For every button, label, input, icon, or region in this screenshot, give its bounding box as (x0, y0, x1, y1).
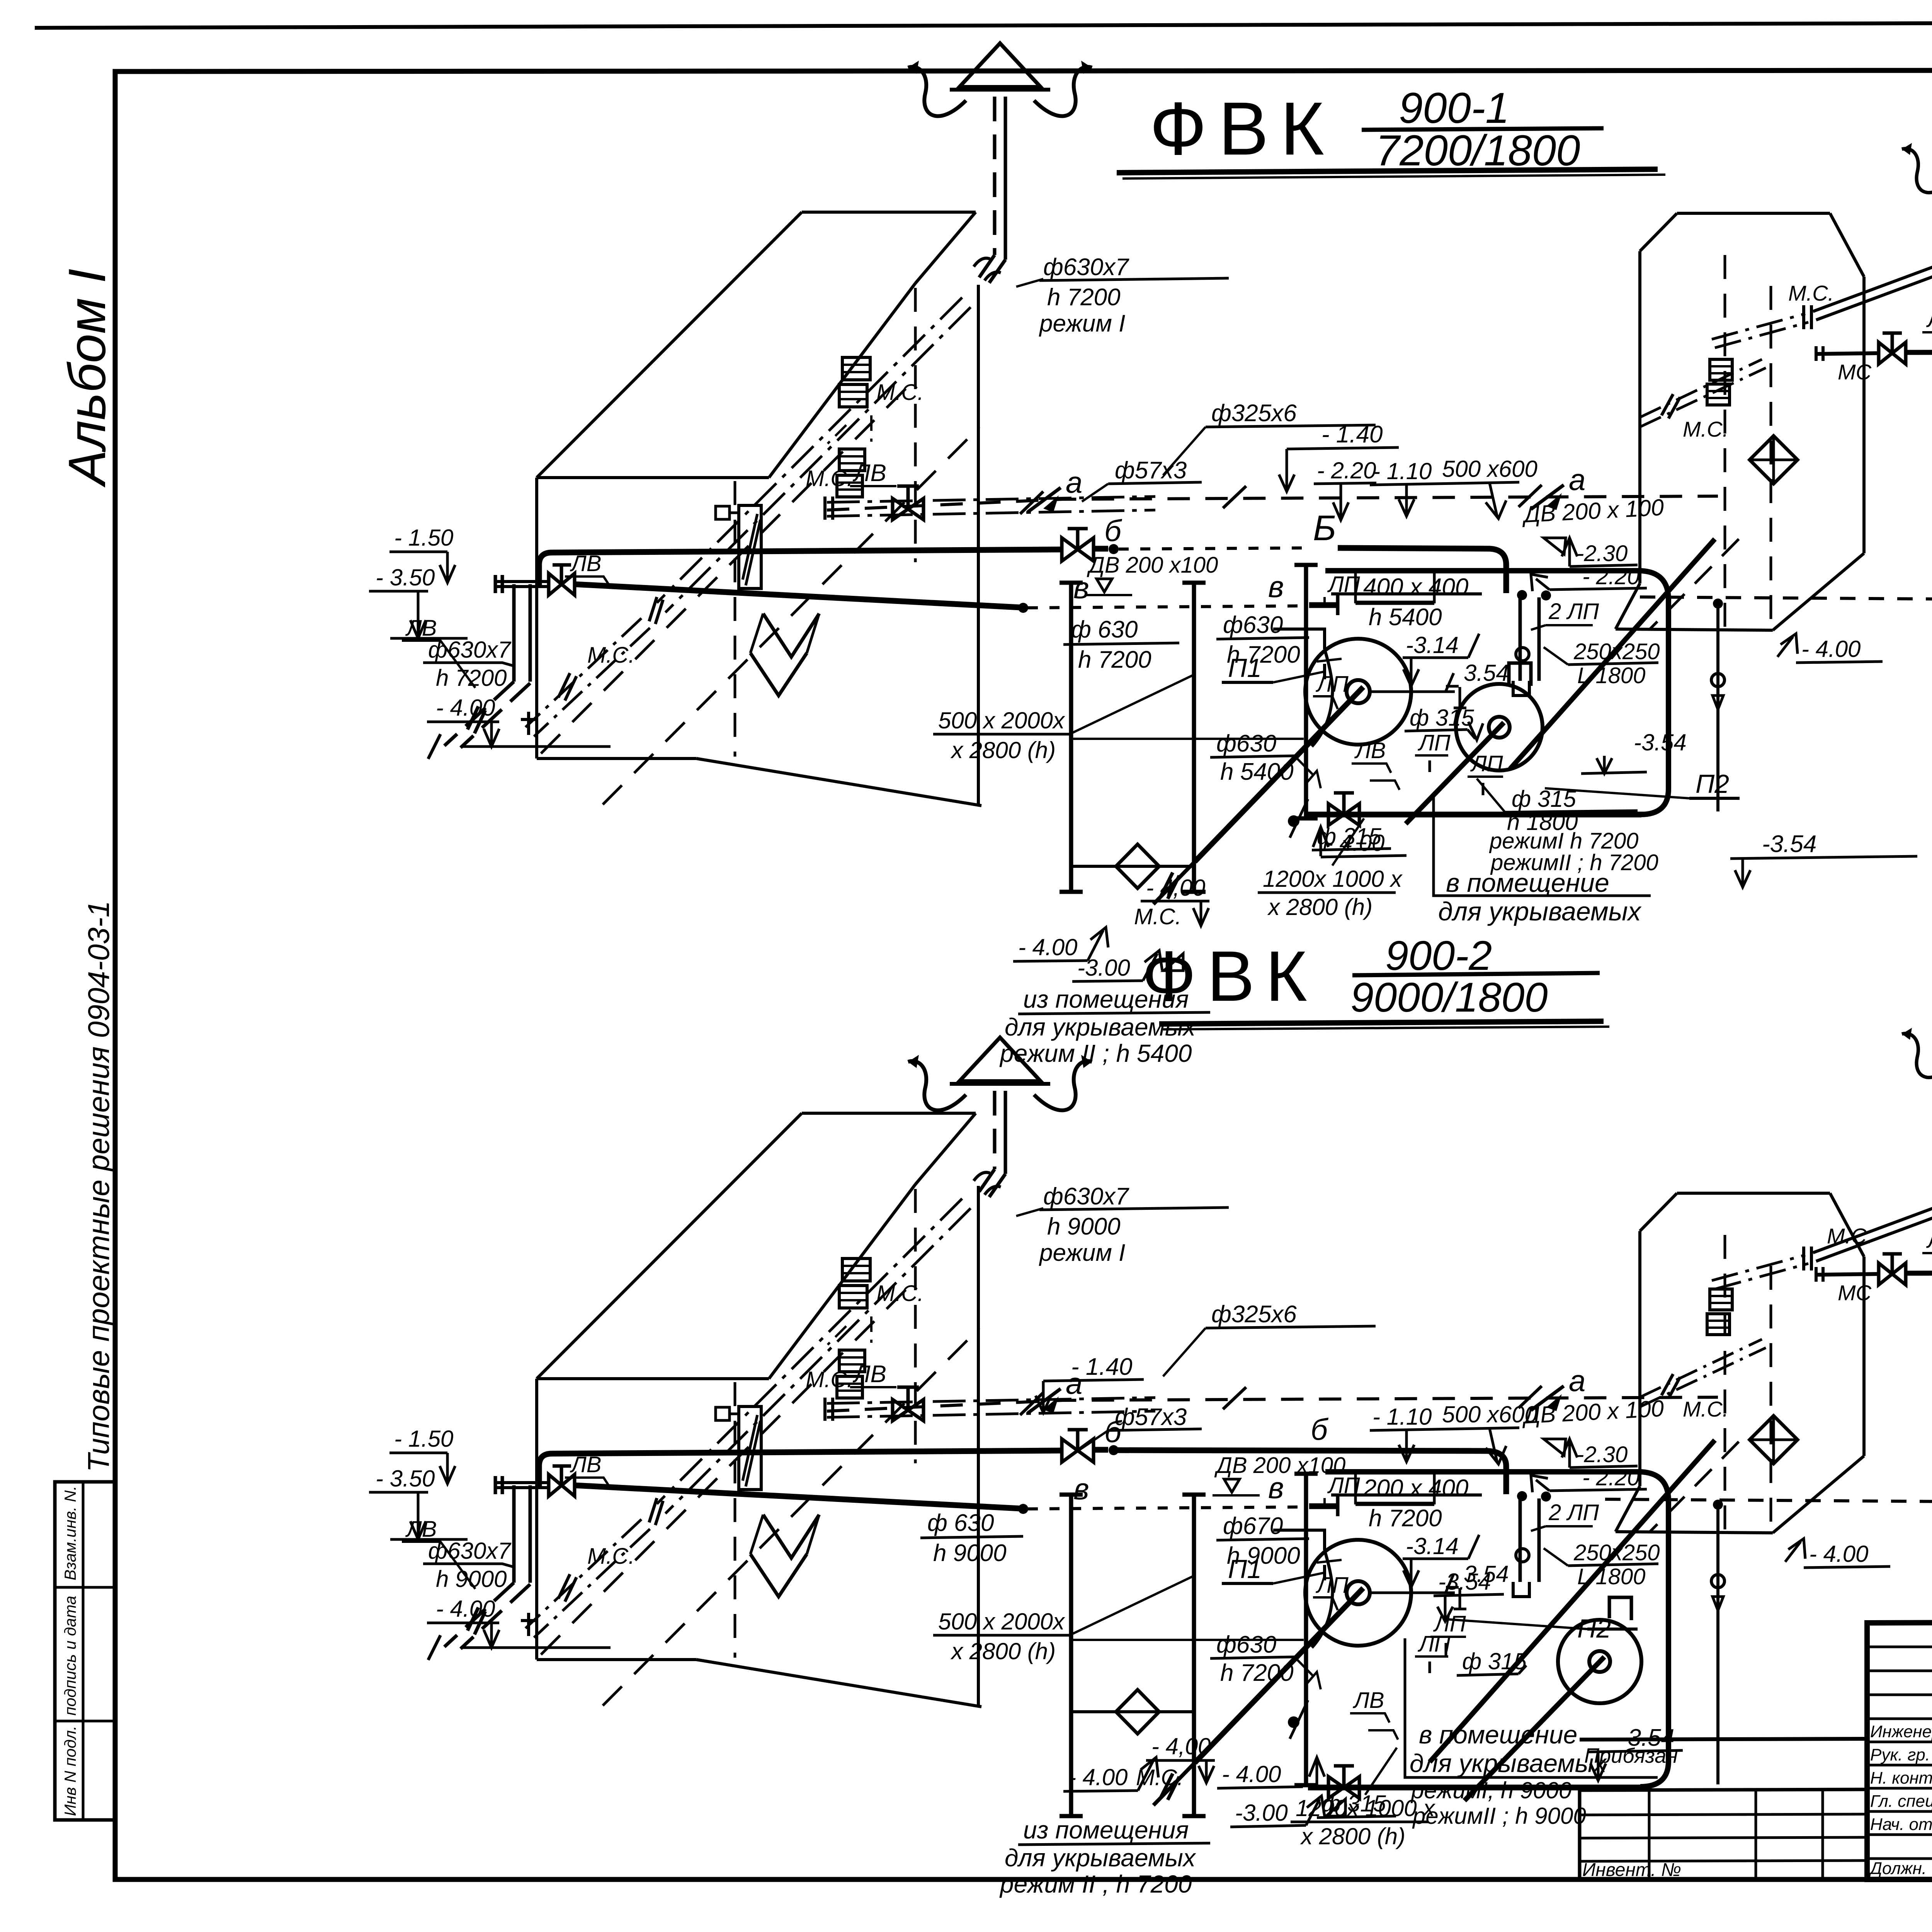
label ЛП 400x400 h5400 (1325, 1472, 1468, 1532)
svg-text:Гл. спец.: Гл. спец. (1870, 1792, 1932, 1811)
label 250x250 L1800 (1544, 639, 1660, 688)
svg-text:h 7200: h 7200 (1047, 284, 1121, 311)
svg-text:x 2800 (h): x 2800 (h) (950, 1638, 1056, 1664)
label 3.54 (П1) (1446, 660, 1509, 708)
svg-text:400 x 400: 400 x 400 (1363, 574, 1468, 600)
heater grid 2 (837, 449, 865, 497)
dash-dot duct into box (1640, 1339, 1766, 1407)
label ЛП 400x400 h5400 (1325, 571, 1468, 631)
svg-text:в: в (1073, 571, 1089, 605)
label ЛП (П1 inlet) (1313, 672, 1349, 709)
title ФВК 900-1/7200/1800 (1117, 84, 1665, 179)
svg-text:-2.30: -2.30 (1577, 541, 1628, 566)
left pipe cluster: flanged pipe + valve (495, 1466, 575, 1496)
dashed line to г (1605, 1499, 1932, 1502)
heater grid 2 (837, 1350, 865, 1398)
svg-text:ЛВ: ЛВ (852, 460, 886, 486)
М.С. + -3.00 (П1 shaft end, bottom) (1136, 1765, 1345, 1827)
left shelter box outline (537, 1113, 981, 1707)
svg-text:П1: П1 (1228, 1554, 1262, 1584)
heater grid 1 (839, 1259, 870, 1308)
в pipe (575, 584, 1338, 615)
label ф315 (П2 inlet) (1405, 705, 1483, 740)
svg-text:1200x 1000 x: 1200x 1000 x (1263, 866, 1403, 892)
right vent cap (1902, 1012, 1932, 1078)
svg-text:h 7200: h 7200 (436, 665, 507, 691)
svg-text:а: а (1066, 465, 1082, 499)
discharge diagonal duct П2 (1430, 1440, 1715, 1762)
svg-text:ЛВ: ЛВ (852, 1361, 886, 1388)
svg-text:ф630x7: ф630x7 (1043, 1183, 1129, 1210)
svg-text:Альбом I: Альбом I (58, 269, 116, 488)
vent cap of left box stack (bottom) (908, 1037, 1092, 1110)
svg-text:- 4.00: - 4.00 (436, 695, 495, 721)
svg-text:М.С.: М.С. (1134, 904, 1181, 929)
label ЛП/1 (П1 hub) (1415, 1631, 1451, 1673)
label ф630 h5400 + diagonal duct (1210, 730, 1321, 838)
label ЛВ (cluster lower) (402, 616, 475, 688)
svg-text:ф630x7: ф630x7 (1043, 254, 1129, 281)
svg-text:ф325x6: ф325x6 (1211, 400, 1297, 427)
dash-dot duct М.С. lower-left (521, 1519, 650, 1638)
svg-text:Инв N подл.: Инв N подл. (61, 1726, 79, 1816)
vent cap of left box stack (908, 43, 1092, 116)
label -3.54 (outlet) (1730, 831, 1917, 887)
svg-text:Инженер: Инженер (1870, 1722, 1932, 1741)
fan П2 (1406, 663, 1543, 824)
break marks on axis (1020, 1393, 1043, 1415)
label ДВ 200x100 (center) (1085, 553, 1218, 595)
label ф325x6 (left) (1163, 1301, 1376, 1376)
svg-text:- 1.50: - 1.50 (394, 1426, 453, 1452)
svg-text:h 7200: h 7200 (1369, 1505, 1442, 1532)
svg-text:ЛВ: ЛВ (570, 551, 601, 576)
svg-text:режим I: режим I (1039, 310, 1125, 337)
label -2.20 (right) (1531, 1465, 1647, 1492)
svg-text:- 4.00: - 4.00 (1801, 636, 1861, 662)
V flow symbol (750, 1515, 819, 1597)
label ЛВ (cluster lower) (402, 1517, 475, 1589)
valve on ф315 pipe (1308, 1766, 1359, 1798)
wall slot device (716, 1406, 761, 1490)
svg-text:- 4.00: - 4.00 (1068, 1764, 1128, 1790)
svg-text:ф325x6: ф325x6 (1211, 1301, 1297, 1328)
svg-text:h 9000: h 9000 (933, 1540, 1007, 1566)
valve on ф315 pipe (1308, 793, 1359, 825)
label -1.40 (axis a left) (1279, 421, 1399, 492)
svg-text:h 5400: h 5400 (1220, 759, 1294, 785)
svg-text:режим II ; h 7200: режим II ; h 7200 (999, 1870, 1192, 1898)
label ф630 h9000 (under в, bottom) (920, 1510, 1023, 1566)
valve on б pipe (1062, 1430, 1094, 1462)
svg-text:- 2.20: - 2.20 (1582, 564, 1639, 589)
svg-text:- 4.00: - 4.00 (436, 1596, 495, 1622)
level -4.00 (left) (1063, 1757, 1158, 1791)
label 1200x1000x x2800(h) (1258, 818, 1403, 920)
label ф630 h7200 (chamber) (1216, 612, 1342, 668)
svg-text:П1: П1 (1228, 653, 1262, 683)
svg-text:x 2800 (h): x 2800 (h) (1267, 894, 1372, 920)
svg-text:б: б (1104, 514, 1122, 548)
label 2 ЛП (1531, 1500, 1599, 1531)
svg-text:-3.00: -3.00 (1077, 955, 1130, 981)
svg-text:- 4.00: - 4.00 (1222, 1761, 1281, 1787)
label ф57x3 (1082, 457, 1202, 502)
title ФВК 900-2/9000/1800 (1142, 932, 1609, 1029)
svg-text:Нач. отд.: Нач. отд. (1870, 1815, 1932, 1834)
svg-text:- 4.00: - 4.00 (1325, 830, 1384, 856)
dash-dot duct into box (1640, 359, 1766, 427)
svg-text:Должн.: Должн. (1868, 1859, 1927, 1878)
svg-text:Типовые проектные решения 0904: Типовые проектные решения 0904-03-1 (82, 901, 116, 1472)
svg-text:- 1.40: - 1.40 (1321, 421, 1383, 448)
fan П1 (1153, 639, 1455, 904)
label П2 (1443, 1614, 1638, 1643)
svg-text:9000/1800: 9000/1800 (1350, 974, 1548, 1020)
2ЛП risers (1513, 1491, 1551, 1597)
left cluster vertical pipe (428, 1485, 530, 1660)
label ЛВ (cluster top) (565, 551, 609, 584)
svg-text:-3.54: -3.54 (1620, 1725, 1674, 1751)
label из помещения для укрываемых режим II h5400 (999, 1689, 1222, 1898)
svg-text:-3.54: -3.54 (1438, 1569, 1491, 1595)
svg-text:М.С.: М.С. (876, 1281, 923, 1306)
svg-text:а: а (1569, 463, 1585, 497)
label ф325x6 (left) (1163, 400, 1376, 475)
label -2.20 (center) (1314, 457, 1376, 520)
diamond (right box filter) (1750, 436, 1798, 484)
label ЛП/1 (П2) (1430, 1611, 1466, 1655)
svg-text:Инвент. №: Инвент. № (1582, 1860, 1681, 1880)
main right pipe (1816, 1265, 1932, 1282)
label -1.40 (axis a left, bottom) (1036, 1354, 1144, 1413)
svg-text:б: б (1104, 1415, 1122, 1449)
label ф630 h5400 + diagonal duct (1210, 1631, 1321, 1739)
250x250 riser (1711, 1500, 1725, 1784)
heater grid 1 (839, 357, 870, 407)
leader line from из помещения to chamber (1201, 896, 1201, 989)
svg-text:ф 630: ф 630 (1071, 616, 1138, 643)
svg-text:Взам.инв. N.: Взам.инв. N. (61, 1486, 79, 1580)
svg-text:ф 630: ф 630 (927, 1510, 994, 1536)
svg-text:ДВ 200 x100: ДВ 200 x100 (1087, 553, 1218, 578)
label 500x2000x x2800(h) (933, 675, 1304, 763)
svg-text:- 1.10: - 1.10 (1372, 458, 1432, 484)
svg-text:б: б (1311, 1412, 1329, 1446)
svg-text:ф630x7: ф630x7 (428, 637, 512, 663)
bottom pipe to shelter (1308, 813, 1647, 815)
svg-text:ф 315: ф 315 (1410, 705, 1475, 731)
axis a in-box duct dash-dot (825, 497, 1155, 520)
right box outline (1616, 213, 1864, 630)
svg-text:- 4.00: - 4.00 (1018, 934, 1077, 960)
svg-text:МС: МС (1838, 1281, 1872, 1305)
plenum chamber outline (1325, 1472, 1668, 1787)
svg-text:ФВК: ФВК (1150, 87, 1336, 171)
label 250x250 L1800 (1544, 1540, 1660, 1589)
leader line from из помещения to chamber (1201, 1726, 1201, 1820)
title block (1867, 1620, 1932, 1879)
2ЛП risers (1513, 590, 1551, 696)
svg-text:500 x 2000x: 500 x 2000x (938, 707, 1065, 733)
svg-text:ф630: ф630 (1216, 730, 1276, 757)
level -1.50 (389, 1426, 455, 1484)
svg-text:режим II ; h 5400: режим II ; h 5400 (999, 1039, 1192, 1067)
level -4.00 (cluster) (427, 1596, 611, 1648)
level -4.00 (left) (1013, 927, 1108, 961)
svg-text:Б: Б (1313, 509, 1336, 548)
label 500x2000x x2800(h) (933, 1577, 1304, 1664)
svg-text:- 1.10: - 1.10 (1372, 1404, 1432, 1430)
label -3.54 (outlet, bottom) (1587, 1725, 1683, 1781)
level -4.00 (partition) (1313, 827, 1406, 857)
label ЛП (П1 inlet) (1313, 1573, 1349, 1610)
label -2.20 (right) (1531, 564, 1647, 591)
valve on main right pipe (1879, 333, 1906, 364)
level -3.50 (369, 565, 468, 638)
vent stack of left box (bottom) (974, 1091, 1005, 1197)
svg-text:ф630x7: ф630x7 (428, 1538, 512, 1564)
axis a in-box duct dash-dot (825, 1398, 1155, 1421)
bottom pipe to shelter (1308, 1786, 1647, 1787)
svg-text:- 3.50: - 3.50 (376, 1466, 435, 1492)
label 1200x1000x x2800(h) (1291, 1748, 1435, 1849)
label ЛВ at valve (1350, 1688, 1398, 1740)
label -3.54 (П2 chamber, bottom) (1434, 1569, 1504, 1621)
valve on main right pipe (1879, 1254, 1906, 1285)
svg-text:М.С.: М.С. (806, 1367, 853, 1392)
a-node marker left (1028, 465, 1082, 512)
б pipe (bottom) (539, 1445, 1506, 1494)
axis a dashed line (827, 1397, 1718, 1411)
label из помещения для укрываемых режим II h5400 (999, 858, 1222, 1067)
vent stack of left box (974, 97, 1005, 283)
valve on б pipe (1062, 529, 1094, 561)
svg-text:-3.54: -3.54 (1762, 831, 1816, 857)
svg-text:М.С.: М.С. (1683, 417, 1728, 441)
title block outer (1867, 1620, 1932, 1879)
a-node marker right (1531, 463, 1585, 510)
title block left extension: line and Прибязан (1580, 1739, 1867, 1880)
diamond symbol in machine room (1071, 844, 1209, 926)
sheet outer top border (35, 21, 1932, 28)
label ЛП/1 (П2) (1468, 751, 1503, 795)
label ф315 h1800 режим (outlet block) (1477, 779, 1658, 875)
label -3.14 (1403, 1533, 1479, 1587)
label ф57x3 (1082, 1404, 1202, 1448)
machine room partitions (1060, 565, 1318, 892)
label в помещение для укрываемых (bottom) (1405, 1638, 1658, 1829)
svg-text:500 x600: 500 x600 (1442, 456, 1537, 482)
svg-text:М.С.: М.С. (1827, 1224, 1872, 1248)
level -1.50 (389, 525, 455, 583)
svg-text:ф57x3: ф57x3 (1115, 1404, 1187, 1430)
svg-text:режимI, h 9000: режимI, h 9000 (1410, 1777, 1571, 1803)
svg-text:2 ЛП: 2 ЛП (1548, 599, 1599, 624)
wall slot device (716, 505, 761, 588)
svg-text:из помещения: из помещения (1023, 1816, 1189, 1844)
left shelter box outline (537, 212, 981, 806)
svg-text:в: в (1268, 570, 1284, 604)
machine room partitions (1060, 1474, 1318, 1816)
label -2.30 (1562, 1439, 1638, 1468)
svg-text:900-1: 900-1 (1399, 84, 1509, 132)
svg-text:200 x 400: 200 x 400 (1363, 1475, 1468, 1502)
svg-text:П2: П2 (1696, 769, 1729, 799)
right vent cap (1902, 128, 1932, 193)
discharge diagonal duct П2 (1510, 539, 1715, 769)
label -1.10 500x600 (1370, 456, 1537, 519)
a-node marker left (1028, 1366, 1082, 1413)
П1 inlet bell (1273, 1530, 1333, 1648)
label ЛВ (cluster top) (565, 1452, 609, 1485)
svg-text:в помещение: в помещение (1446, 868, 1609, 898)
label ЛВ in-box (850, 1361, 896, 1388)
svg-text:в помещение: в помещение (1419, 1720, 1577, 1749)
label ЛВ at valve (1352, 738, 1400, 790)
main right pipe (1816, 345, 1932, 361)
svg-text:подпись и дата: подпись и дата (61, 1596, 79, 1716)
svg-text:-3.00: -3.00 (1235, 1800, 1288, 1826)
label ф315 under valve (1312, 823, 1391, 850)
svg-text:ф630: ф630 (1216, 1631, 1276, 1658)
svg-text:а: а (1569, 1364, 1585, 1398)
svg-text:500 x600: 500 x600 (1442, 1401, 1537, 1427)
М.С. + -3.00 (П1 shaft end) (1072, 904, 1183, 981)
heater grid (right box) (1707, 1289, 1732, 1335)
label ЛВ in-box (850, 460, 896, 486)
svg-text:для укрываемых: для укрываемых (1005, 1013, 1196, 1041)
svg-text:h 7200: h 7200 (1078, 646, 1151, 673)
left cluster vertical pipe (428, 584, 530, 759)
left pipe cluster: flanged pipe + valve (495, 565, 575, 595)
svg-text:h 5400: h 5400 (1369, 604, 1442, 631)
axis a dashed line (827, 496, 1718, 510)
svg-text:500 x 2000x: 500 x 2000x (938, 1609, 1065, 1634)
diamond symbol in machine room (1071, 1690, 1215, 1783)
inner supply duct (dash-dot) in left box (649, 298, 971, 624)
left box hidden edges (541, 1189, 980, 1706)
label ф630x7 / h 7200 / режим I (1016, 254, 1229, 337)
б pipe (539, 544, 1506, 593)
diamond (right box filter) (1750, 1416, 1798, 1464)
fan П2 (1464, 1597, 1641, 1801)
label ЛП/1 (П1 hub) (1415, 730, 1451, 772)
label ДВ 200x100 (right top) (1521, 494, 1665, 554)
svg-text:М.С.: М.С. (806, 466, 853, 491)
dashed line to г (1640, 597, 1932, 600)
svg-text:из помещения: из помещения (1023, 985, 1189, 1013)
svg-text:ЛП: ЛП (1315, 1573, 1349, 1598)
svg-text:режимII ; h 9000: режимII ; h 9000 (1412, 1803, 1586, 1829)
svg-text:ЛП: ЛП (1470, 751, 1503, 776)
valve on axis a duct (893, 486, 923, 520)
left box hidden edges (541, 288, 980, 804)
label ЛВ (right pipe) (1922, 1228, 1932, 1265)
valve on axis a duct (893, 1387, 923, 1421)
svg-text:- 1.50: - 1.50 (394, 525, 453, 551)
fan П1 (1153, 1540, 1455, 1805)
svg-text:для укрываемых: для укрываемых (1438, 897, 1642, 926)
label ф630 h7200 (under в) (1063, 616, 1179, 673)
svg-text:ф57x3: ф57x3 (1115, 457, 1187, 484)
svg-text:МС: МС (1838, 360, 1872, 384)
svg-text:ЛП: ЛП (1315, 672, 1349, 697)
label в помещение для укрываемых (1434, 794, 1651, 926)
svg-text:ЛВ: ЛВ (1352, 1688, 1384, 1713)
label 2 ЛП (1531, 599, 1599, 630)
label -3.14 (1403, 632, 1479, 686)
svg-text:h 7200: h 7200 (1220, 1660, 1294, 1686)
level -4.00 (right box) (1777, 634, 1883, 663)
svg-text:- 2.20: - 2.20 (1582, 1465, 1639, 1490)
М.С. dash-dot pipe (right box) (1712, 1189, 1932, 1289)
М.С. dash-dot pipe (right box) (1712, 247, 1932, 348)
label ДВ 200x100 (center) (1213, 1453, 1345, 1495)
svg-text:900-2: 900-2 (1385, 932, 1492, 979)
svg-text:М.С.: М.С. (876, 380, 923, 405)
svg-text:ф 315: ф 315 (1512, 786, 1577, 812)
svg-text:h 9000: h 9000 (436, 1566, 507, 1592)
label -3.54 (П2 chamber) (1581, 730, 1687, 774)
svg-text:h 9000: h 9000 (1047, 1213, 1121, 1240)
plenum chamber outline (1325, 571, 1668, 815)
lower-left mini table (1580, 1789, 1867, 1880)
dash-dot duct М.С. lower-left (521, 618, 650, 736)
svg-text:Н. контр.: Н. контр. (1870, 1769, 1932, 1787)
svg-text:x 2800 (h): x 2800 (h) (950, 737, 1056, 763)
П1 inlet bell (1273, 629, 1333, 747)
svg-text:-3.14: -3.14 (1406, 632, 1459, 658)
svg-text:-3.14: -3.14 (1406, 1533, 1459, 1559)
label 3.54 (П1) (1446, 1561, 1509, 1609)
svg-text:для укрываемых: для укрываемых (1410, 1749, 1607, 1777)
svg-text:- 3.50: - 3.50 (376, 565, 435, 590)
svg-text:ЛП: ЛП (1417, 730, 1451, 755)
label ф315 (П2 inlet) (1457, 1648, 1527, 1675)
svg-text:ф630: ф630 (1223, 612, 1283, 638)
svg-text:Рук. гр.: Рук. гр. (1870, 1745, 1930, 1764)
svg-text:2 ЛП: 2 ЛП (1548, 1500, 1599, 1525)
level -3.50 (369, 1466, 468, 1539)
svg-text:ДВ 200 x100: ДВ 200 x100 (1214, 1453, 1345, 1478)
svg-text:режим I: режим I (1039, 1240, 1125, 1266)
signature table rows (1867, 1647, 1932, 1859)
level -4.00 (partition) (1217, 1757, 1325, 1788)
right box outline (1616, 1193, 1864, 1533)
svg-text:в: в (1073, 1472, 1089, 1506)
svg-text:-3.54: -3.54 (1634, 730, 1687, 755)
label ЛВ (right pipe) (1922, 307, 1932, 344)
label ф630x7 / h 7200 / режим I (1016, 1183, 1229, 1266)
V flow symbol (750, 614, 819, 696)
svg-text:М.С.: М.С. (1136, 1765, 1183, 1790)
break marks on axis (1020, 492, 1043, 514)
svg-text:для укрываемых: для укрываемых (1005, 1844, 1196, 1872)
в pipe (575, 1485, 1338, 1516)
svg-text:- 4.00: - 4.00 (1809, 1541, 1868, 1567)
margin stamp box (55, 1482, 115, 1820)
svg-text:М.С.: М.С. (1683, 1397, 1728, 1421)
250x250 riser (1711, 599, 1725, 811)
a-node marker right (1531, 1364, 1585, 1411)
level -4.00 (cluster) (427, 695, 611, 747)
label ф315 under valve (1317, 1791, 1396, 1818)
label П1 (1222, 653, 1325, 683)
inner supply duct (dash-dot) in left box (649, 1199, 971, 1525)
label П1 (1222, 1554, 1325, 1584)
label П2 (1545, 769, 1740, 799)
